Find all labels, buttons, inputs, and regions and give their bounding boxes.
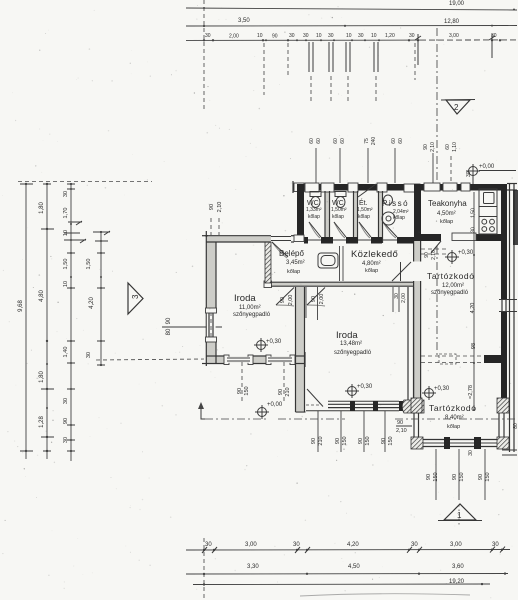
svg-text:90: 90	[335, 438, 341, 444]
left wing bottom wall with window and french door	[206, 355, 227, 357]
svg-text:kőlap: kőlap	[393, 215, 405, 221]
svg-text:30: 30	[328, 33, 334, 39]
window box kitchenette 2	[443, 183, 457, 191]
lintel dashes in lounge	[421, 248, 446, 250]
svg-text:4,80m²: 4,80m²	[362, 261, 381, 267]
svg-text:90: 90	[209, 204, 215, 210]
svg-text:80: 80	[166, 328, 172, 335]
svg-text:150: 150	[388, 436, 394, 445]
lounge (bottom wing) west wall: piers and window	[411, 398, 422, 413]
svg-text:szőnyegpadló: szőnyegpadló	[431, 290, 469, 296]
level marker lounge middle +0,30	[445, 250, 474, 264]
wall junction box over Pisso east wall	[404, 184, 420, 192]
svg-text:+0,30: +0,30	[434, 386, 450, 392]
svg-text:90: 90	[478, 474, 484, 480]
overall vertical dimension 9,68	[18, 183, 33, 459]
svg-text:1,50: 1,50	[86, 259, 92, 270]
svg-text:90: 90	[452, 474, 458, 480]
svg-text:1,40: 1,40	[63, 347, 69, 358]
svg-text:Közlekedő: Közlekedő	[351, 249, 398, 260]
extra tick strokes left block	[43, 184, 105, 451]
dimension detail line with segment labels	[186, 33, 517, 41]
svg-text:150: 150	[485, 472, 491, 481]
svg-text:10: 10	[371, 33, 377, 39]
window glazing left wing bottom	[227, 357, 250, 359]
room label Tartozkodo middle	[427, 271, 475, 296]
door hall to office west : swing	[276, 288, 294, 306]
svg-text:Ét.: Ét.	[359, 198, 368, 207]
Et diagonal mark	[358, 184, 376, 197]
svg-text:kőlap: kőlap	[440, 219, 453, 225]
Et/Pisso divider wall	[378, 191, 380, 243]
svg-text:90: 90	[311, 296, 317, 302]
svg-text:Tartózkodó: Tartózkodó	[427, 271, 475, 281]
bottom intermediate dimension line	[186, 564, 508, 575]
svg-text:150: 150	[459, 472, 465, 481]
svg-text:Pissó: Pissó	[382, 199, 409, 208]
window box over WC1	[305, 183, 319, 192]
thresholds in WC doors	[308, 239, 321, 241]
room label Pisso	[382, 199, 409, 221]
svg-text:8,40m²: 8,40m²	[445, 415, 464, 421]
svg-text:1,28: 1,28	[39, 416, 45, 428]
top connector line of left block	[18, 181, 152, 183]
svg-text:kőlap: kőlap	[365, 268, 378, 274]
level marker office central +0,30	[345, 384, 373, 398]
svg-text:30: 30	[63, 191, 69, 197]
window box kitchenette 1	[424, 183, 440, 191]
top wall extension to right edge	[507, 183, 517, 185]
WC row bottom wall with 4 door gaps	[304, 237, 308, 244]
west window glazing	[208, 312, 210, 338]
Pisso door swing	[383, 222, 397, 237]
level marker office west +0,30	[254, 338, 282, 352]
room label Iroda central	[334, 330, 372, 356]
extension tick arrows on top detail line	[415, 34, 495, 65]
svg-text:Iroda: Iroda	[234, 293, 256, 304]
kitchenette door leaf	[452, 233, 476, 241]
svg-text:Tartózkodó: Tartózkodó	[429, 403, 477, 413]
svg-text:Belépő: Belépő	[279, 249, 304, 258]
outer east boundary lines	[509, 183, 511, 452]
junction box in top wall	[294, 235, 304, 242]
beam over lounge opening (dashed)	[421, 355, 501, 357]
dims under south lounge windows	[426, 449, 491, 527]
svg-text:=2,78: =2,78	[468, 385, 474, 399]
vertical dimension line C	[63, 183, 86, 461]
svg-text:3,30: 3,30	[247, 564, 259, 570]
door dim corridor-office 90/2,00	[311, 294, 325, 305]
toilet WC1	[310, 192, 321, 208]
dimension line 12,80 / 3,50	[186, 18, 517, 27]
door dims above west wing 90/2,10	[209, 202, 223, 235]
svg-text:3,60: 3,60	[452, 564, 464, 570]
svg-text:Iroda: Iroda	[336, 330, 358, 341]
svg-text:90: 90	[397, 420, 403, 426]
kitchenette bottom wall with door	[421, 234, 441, 241]
white window zones over cores	[228, 357, 292, 363]
drop extension lines from top block to plan	[204, 0, 415, 110]
svg-text:1,33m²: 1,33m²	[306, 207, 322, 213]
entrance door swing	[272, 242, 288, 257]
lounge interior dim chain	[468, 192, 477, 411]
svg-text:+0,00: +0,00	[479, 164, 495, 170]
svg-text:4,80: 4,80	[39, 290, 45, 302]
section marker triangle 2	[441, 100, 475, 115]
room label Iroda west	[233, 293, 271, 318]
svg-text:30: 30	[205, 542, 212, 548]
svg-text:90: 90	[272, 33, 278, 39]
svg-text:2,10: 2,10	[217, 202, 223, 213]
left wing top wall	[206, 235, 271, 237]
svg-text:60: 60	[333, 138, 339, 144]
svg-text:30: 30	[289, 33, 295, 39]
svg-text:kőlap: kőlap	[358, 214, 370, 220]
svg-text:90: 90	[426, 474, 432, 480]
svg-text:1,80: 1,80	[39, 202, 45, 214]
window box kitchenette 3	[461, 183, 470, 191]
svg-text:10: 10	[63, 281, 69, 287]
svg-text:12,00m²: 12,00m²	[442, 283, 464, 289]
room label Tartozkodo south	[429, 403, 477, 430]
svg-text:30: 30	[409, 33, 415, 39]
door corridor to lounge : leaf and swing	[400, 262, 402, 281]
svg-text:2: 2	[454, 103, 459, 112]
svg-text:4,20: 4,20	[89, 297, 95, 309]
top exterior wall of WC row and kitchenette	[293, 184, 507, 191]
svg-text:60: 60	[391, 138, 397, 144]
svg-text:30: 30	[466, 171, 472, 177]
svg-text:2,00: 2,00	[401, 293, 407, 303]
window box over WC2	[321, 183, 334, 192]
dim 90/2,10 stacked at wing west window	[396, 420, 412, 434]
svg-text:2,10: 2,10	[396, 428, 407, 434]
section line 2 (vertical dash-dot)	[436, 28, 438, 183]
svg-text:13,48m²: 13,48m²	[340, 341, 362, 347]
svg-text:60: 60	[340, 138, 346, 144]
svg-text:4,50: 4,50	[348, 564, 360, 570]
svg-text:10: 10	[257, 33, 263, 39]
window box over Pisso	[377, 183, 387, 192]
svg-text:90: 90	[166, 317, 172, 324]
svg-text:90: 90	[280, 297, 286, 303]
central office bottom wall	[296, 411, 306, 413]
svg-text:30: 30	[358, 33, 364, 39]
svg-text:150: 150	[244, 386, 250, 395]
svg-text:30: 30	[86, 352, 92, 358]
door corridor to office central : swing	[307, 288, 325, 306]
svg-text:9,68: 9,68	[18, 300, 24, 312]
svg-text:3,00: 3,00	[449, 33, 459, 39]
window dims above plan 60/60 etc	[309, 137, 404, 183]
svg-text:2,10: 2,10	[430, 142, 436, 152]
room label Teakonyha	[428, 199, 467, 225]
svg-text:3,00: 3,00	[245, 542, 257, 548]
svg-text:Teakonyha: Teakonyha	[428, 199, 467, 208]
svg-text:2,00: 2,00	[319, 294, 325, 305]
room label Et	[357, 198, 373, 220]
svg-text:150: 150	[433, 472, 439, 481]
svg-text:4,50m²: 4,50m²	[437, 211, 456, 217]
kitchenette door swing	[431, 241, 441, 253]
wall end box below hatched wall	[264, 281, 272, 288]
svg-text:+0,30: +0,30	[458, 250, 474, 256]
vertical dimension line D (short, inner)	[86, 231, 110, 366]
svg-text:60: 60	[398, 138, 404, 144]
svg-text:1,80: 1,80	[39, 371, 45, 383]
svg-text:10: 10	[346, 33, 352, 39]
svg-text:2,00: 2,00	[288, 295, 294, 306]
central spine wall	[295, 287, 297, 412]
lounge bottom wall window band	[423, 439, 497, 441]
vertical dimension line B	[39, 183, 54, 459]
door dim hall-office 90/2,00	[280, 295, 294, 306]
svg-text:90: 90	[311, 438, 317, 444]
kitchenette right wall with window gap	[501, 184, 507, 299]
dim extension lines in corridor	[339, 246, 341, 281]
svg-text:kőlap: kőlap	[332, 214, 344, 220]
Et door swing	[359, 222, 371, 237]
svg-text:+0,30: +0,30	[266, 339, 282, 345]
dashed leader to plan bottom wall	[96, 359, 204, 360]
WC1/WC2 divider wall	[324, 191, 326, 243]
svg-text:3,00: 3,00	[450, 542, 462, 548]
window in right wall	[501, 300, 503, 311]
svg-text:19,20: 19,20	[449, 579, 465, 585]
lounge east wall: piers and window	[497, 398, 509, 413]
central office east wall (thin double)	[407, 287, 409, 401]
left wing west wall with window	[205, 235, 207, 356]
svg-text:4,20: 4,20	[347, 542, 359, 548]
svg-text:1,50: 1,50	[63, 259, 69, 270]
svg-text:10: 10	[316, 33, 322, 39]
door dim corridor-lounge 90/2,10	[424, 250, 437, 260]
svg-text:150: 150	[342, 436, 348, 445]
svg-text:30: 30	[293, 542, 300, 548]
window band central office bottom	[328, 400, 399, 402]
window box over WC left pier	[294, 183, 304, 192]
lounge bottom wall mullions	[444, 437, 450, 449]
WC block left wall	[297, 184, 304, 240]
dim pair 30/2,00 under corridor wall	[393, 287, 407, 312]
svg-text:1,70: 1,70	[63, 208, 69, 219]
toilet WC2	[335, 192, 346, 208]
svg-text:90: 90	[278, 389, 284, 395]
dim 90/150 under west wing	[237, 362, 250, 402]
svg-text:90: 90	[424, 252, 430, 258]
level marker outside +0,00	[255, 402, 283, 419]
corridor east wall (Pisso right / kitchen left), with door gap	[414, 184, 421, 241]
svg-text:2,00: 2,00	[229, 33, 239, 39]
quarter-round hatched pier	[402, 400, 424, 413]
svg-text:+0,30: +0,30	[357, 384, 373, 390]
window dims above kitchenette	[423, 142, 458, 183]
svg-text:60: 60	[316, 138, 322, 144]
svg-text:98: 98	[471, 343, 477, 349]
level marker lounge south +0,30	[422, 386, 450, 400]
section line 1 arrow	[198, 402, 205, 419]
dimension line 19,00	[186, 1, 517, 11]
room label Kozlekedo	[351, 249, 398, 274]
svg-text:90: 90	[423, 144, 429, 150]
svg-text:30: 30	[492, 542, 499, 548]
corner overshoot strokes	[202, 235, 208, 237]
Pisso toilet	[384, 195, 393, 205]
svg-text:30: 30	[471, 227, 477, 233]
svg-text:60: 60	[309, 138, 315, 144]
entrance hall hatched wall	[265, 242, 271, 283]
svg-text:1,50m²: 1,50m²	[357, 207, 373, 213]
svg-text:4,20: 4,20	[470, 303, 476, 314]
svg-text:30: 30	[205, 33, 211, 39]
svg-text:1,50m²: 1,50m²	[331, 207, 347, 213]
svg-text:30: 30	[303, 33, 309, 39]
svg-text:1,20: 1,20	[385, 33, 395, 39]
window dimension 90/80 with leader	[162, 317, 222, 335]
dashed beam box	[439, 354, 456, 364]
gray cores of hollow walls	[207, 191, 415, 411]
tick slashes bottom line	[202, 547, 505, 553]
svg-text:szőnyegpadló: szőnyegpadló	[334, 350, 372, 356]
WC2/Et divider wall	[353, 191, 355, 243]
svg-text:90: 90	[63, 418, 69, 424]
svg-text:210: 210	[285, 387, 291, 396]
svg-text:30: 30	[63, 398, 69, 404]
svg-text:1,50: 1,50	[471, 208, 477, 218]
svg-text:WC: WC	[307, 200, 319, 207]
entrance door lintel lines	[271, 236, 291, 238]
kitchenette sink	[479, 189, 497, 234]
svg-text:kőlap: kőlap	[447, 424, 460, 430]
svg-text:150: 150	[365, 436, 371, 445]
svg-text:90: 90	[381, 438, 387, 444]
WC2 door swing	[334, 222, 346, 237]
Pisso basin	[382, 212, 395, 225]
svg-text:11,00m²: 11,00m²	[239, 305, 261, 311]
dash-dot extension at left	[203, 538, 205, 600]
svg-text:3: 3	[131, 294, 140, 299]
svg-text:80: 80	[513, 423, 518, 429]
hall washbasin	[318, 253, 338, 268]
glazed door gap with swing	[307, 389, 323, 407]
level marker top right +0,00 with leader	[466, 164, 516, 184]
svg-text:60: 60	[445, 144, 451, 150]
room label Belepo	[279, 249, 305, 275]
svg-text:19,00: 19,00	[449, 1, 465, 7]
svg-text:240: 240	[371, 137, 377, 146]
svg-text:3,50: 3,50	[238, 18, 250, 24]
room label WC2	[331, 200, 347, 220]
bottom detail dimension line	[186, 542, 510, 551]
svg-text:WC: WC	[332, 200, 344, 207]
svg-text:90: 90	[358, 438, 364, 444]
west window white zone	[207, 313, 216, 337]
svg-text:kőlap: kőlap	[287, 269, 300, 275]
section marker triangle 3	[128, 283, 143, 314]
svg-text:kőlap: kőlap	[308, 214, 320, 220]
section line 1 dash-dot	[205, 418, 268, 420]
scan artifact wavy line bottom	[300, 594, 470, 596]
ticks on detail line	[203, 39, 501, 41]
bottom overall dimension line 19,20	[193, 579, 490, 586]
section marker triangle 1	[438, 504, 482, 521]
svg-text:1: 1	[457, 511, 462, 520]
section line 2 inside lounge	[436, 246, 438, 356]
svg-text:szőnyegpadló: szőnyegpadló	[233, 312, 271, 318]
svg-text:210: 210	[318, 436, 324, 445]
dims under central office windows	[311, 411, 394, 452]
svg-text:2,10: 2,10	[431, 250, 437, 260]
hall/corridor south wall with two door gaps	[325, 281, 414, 283]
svg-text:75: 75	[364, 138, 370, 144]
room label WC1	[306, 200, 322, 220]
WC1 door swing	[309, 222, 321, 237]
window box over Et	[348, 183, 358, 192]
svg-text:30: 30	[468, 450, 474, 456]
svg-text:+0,00: +0,00	[267, 402, 283, 408]
kitchenette stove	[479, 217, 497, 232]
extension lines corridor-office door	[305, 287, 307, 318]
dim 90/210 under west wing	[278, 362, 291, 402]
svg-text:12,80: 12,80	[444, 19, 460, 25]
svg-text:3,45m²: 3,45m²	[286, 260, 305, 266]
